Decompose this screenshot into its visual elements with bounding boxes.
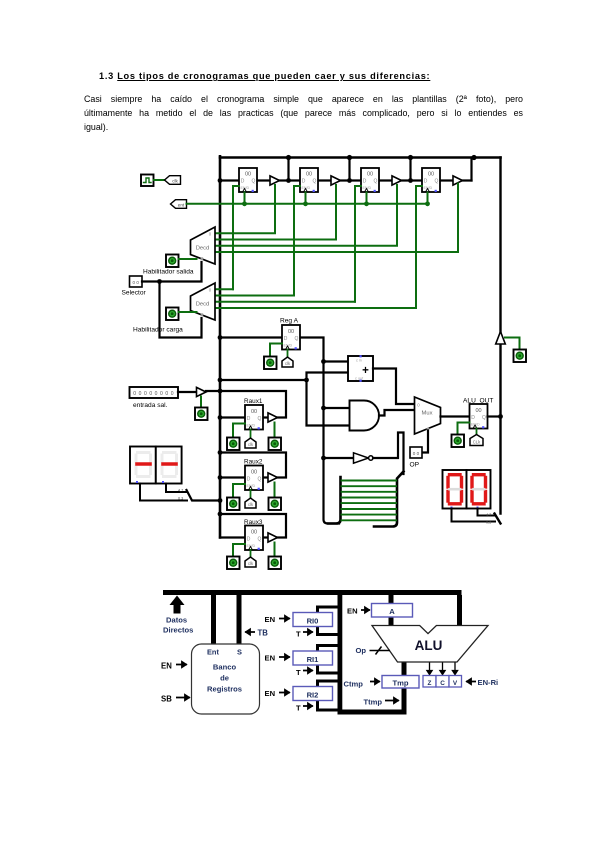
wire FF3 EN to decoder2 out3 <box>355 186 361 302</box>
svg-text:S: S <box>237 648 242 657</box>
wire Ent drop bar <box>211 595 216 644</box>
buffer Raux3 <box>268 533 278 542</box>
wire adder in1 <box>324 360 349 362</box>
wire Raux1 loop <box>206 391 286 418</box>
node RegA D rail junction <box>218 335 223 340</box>
arrow T RI1 <box>303 668 313 673</box>
wire Raux3 loop <box>220 514 286 538</box>
flip-flop FF4 <box>422 168 440 192</box>
ALU body <box>372 626 488 663</box>
seven-segment display right digit1 (0) <box>443 470 467 509</box>
wire selector branch to decoder2 select <box>160 282 202 338</box>
wire adder in2 <box>307 373 349 381</box>
wire bus bottom bar <box>338 710 407 715</box>
node ALU_OUT Q rail junction <box>498 414 503 419</box>
wire NOT out <box>373 433 404 475</box>
svg-text:T: T <box>296 630 301 639</box>
svg-text:Reg A: Reg A <box>280 318 299 325</box>
svg-text:4,7: 4,7 <box>178 489 183 493</box>
arrow EN RI0 <box>279 616 290 621</box>
svg-text:entrada sal.: entrada sal. <box>133 402 168 409</box>
pin output triangle on right rail <box>496 332 506 345</box>
wire NOT in <box>324 457 354 459</box>
svg-text:Z: Z <box>428 680 432 687</box>
wire display1 digit2 to splitter <box>166 484 187 493</box>
wire bus drop from buffer4 out <box>470 158 472 181</box>
node ent-line junctions <box>242 201 430 206</box>
svg-text:Ent: Ent <box>207 648 219 657</box>
register ALU_OUT <box>470 404 488 429</box>
wire S drop bar <box>237 595 242 644</box>
button ALU_OUT enable <box>452 435 465 448</box>
svg-text:Selector: Selector <box>122 290 147 297</box>
node adder-in2 branch junction <box>304 378 309 383</box>
wire Raux3 buffer-enable green <box>274 543 276 557</box>
arrow flag V <box>452 663 457 675</box>
wire main bus column <box>338 595 343 715</box>
button Raux1 output-enable <box>269 438 282 451</box>
node rail y380 junction <box>218 378 223 383</box>
svg-text:Registros: Registros <box>207 685 242 694</box>
wire FF4 EN to decoder2 out4 <box>416 186 422 308</box>
svg-text:clk: clk <box>172 178 178 183</box>
button Raux1 enable <box>227 438 240 451</box>
wire display2 digit2 to splitter <box>478 509 495 516</box>
tag clk Raux3 <box>245 557 256 567</box>
wire decoder1 out2 to buffer2 enable <box>215 185 336 240</box>
wire Raux1 EN green <box>233 424 245 438</box>
register A <box>372 604 413 618</box>
MUX U6 <box>415 397 441 434</box>
wire right bar <box>457 595 462 626</box>
svg-text:Banco: Banco <box>213 663 237 672</box>
arrow T RI2 <box>303 703 313 708</box>
seven-segment display left (dash) digit1 <box>130 447 156 484</box>
svg-text:Tmp: Tmp <box>392 679 408 688</box>
decoder U1 Decd (habilitador salida) <box>191 227 216 264</box>
svg-text:0 0: 0 0 <box>413 451 420 456</box>
svg-text:Raux1: Raux1 <box>244 398 263 405</box>
bracket RI1 <box>318 646 340 674</box>
block Banco de Registros <box>192 644 260 714</box>
wire Raux2 EN green <box>233 484 245 498</box>
register Raux2 <box>245 466 263 491</box>
wire decoder2 out3 stub <box>215 301 355 303</box>
LED output <box>514 350 527 363</box>
svg-text:OP: OP <box>410 462 420 469</box>
svg-text:RI0: RI0 <box>307 617 319 626</box>
node bus junction dots <box>218 155 477 183</box>
wire Raux2 clock stub <box>250 490 252 498</box>
wire bus drop to FF2 D <box>287 158 289 181</box>
svg-text:Decd: Decd <box>196 302 210 308</box>
wire FF D-Q chain <box>220 179 472 181</box>
wire bus drop to FF3 D <box>348 158 350 181</box>
svg-text:Directos: Directos <box>163 626 193 635</box>
register Raux1 <box>245 405 263 430</box>
wire entrada to buffer <box>178 391 197 393</box>
svg-text:0,3: 0,3 <box>486 521 491 525</box>
seven-segment display right digit2 (0) <box>467 470 491 509</box>
buffer B1 <box>270 176 280 185</box>
svg-text:Habilitador salida: Habilitador salida <box>143 269 194 276</box>
adder U3 <box>348 355 373 382</box>
register RI0 <box>293 613 333 627</box>
button entrada enable <box>195 408 208 421</box>
wire Raux2 buffer-enable green <box>274 483 276 498</box>
svg-text:TB: TB <box>258 629 269 638</box>
wire ent line to FF clocks <box>187 203 428 205</box>
wire Op with slash <box>370 647 391 655</box>
flip-flop FF2 <box>300 168 318 192</box>
arrow EN-Ri <box>466 679 476 684</box>
wire decoder2 out2 stub <box>215 295 294 297</box>
wire decoder1 out3 to buffer3 enable <box>215 185 397 246</box>
wire RegA D input <box>220 336 282 338</box>
wire top bus <box>220 156 501 159</box>
button Raux2 output-enable <box>269 498 282 511</box>
wire display1 digit1 to splitter <box>140 484 187 501</box>
node Raux2 rail junctions <box>218 450 223 480</box>
svg-text:+: + <box>362 365 369 377</box>
wire Tmp column <box>402 662 407 710</box>
register Tmp <box>382 676 419 689</box>
register RI1 <box>293 651 333 665</box>
splitter display2 <box>495 514 501 524</box>
svg-text:ALU: ALU <box>415 638 443 653</box>
flag C box <box>436 676 449 688</box>
wire entrada buffer enable <box>200 397 202 408</box>
arrow EN RI2 <box>279 690 290 695</box>
svg-text:Decd: Decd <box>196 246 210 252</box>
wire display2 digit1 to splitter <box>452 509 496 522</box>
wire RegA EN green <box>270 344 282 358</box>
wire Raux1 buffer-enable green <box>274 423 276 438</box>
svg-text:EN: EN <box>161 662 172 671</box>
arrow flag C <box>440 663 445 675</box>
wire button2 to decoder2 enable <box>179 311 197 313</box>
arrow T RI0 <box>303 629 313 634</box>
svg-text:SB: SB <box>161 695 172 704</box>
bracket RI2 <box>318 681 340 710</box>
svg-text:Mux: Mux <box>422 411 433 417</box>
flip-flop FF1 <box>239 168 257 192</box>
decoder U2 Decd (habilitador carga) <box>191 283 216 320</box>
tunnel ent <box>171 200 187 209</box>
node adder-in1 junction <box>321 359 326 364</box>
tag clk Raux1 <box>245 438 256 448</box>
tunnel clk <box>165 176 181 185</box>
wire ALU_OUT Q to right rail <box>488 415 501 417</box>
wire right rail <box>499 158 501 514</box>
wire button1 to decoder1 enable <box>179 258 197 260</box>
tag CLK ALU_OUT <box>470 435 483 446</box>
seven-segment display left (dash) digit2 <box>156 447 182 484</box>
svg-text:0 0: 0 0 <box>133 280 140 285</box>
wire FF2 clock drop <box>305 193 307 204</box>
bracket RI0 <box>318 607 340 635</box>
svg-text:EN: EN <box>347 607 358 616</box>
wire output pin to LED green <box>505 338 520 350</box>
buffer B3 <box>392 176 402 185</box>
button Raux3 output-enable <box>269 557 282 570</box>
wire FF3 clock drop <box>366 193 368 204</box>
wire ALU_OUT clock stub <box>476 429 478 435</box>
wire FF2 EN to decoder2 out2 <box>294 186 300 296</box>
wire RegA clock stub <box>287 350 289 358</box>
wire MUX out to ALU_OUT D <box>441 415 470 417</box>
splitter display1 <box>187 490 221 501</box>
splitter main right spine <box>374 472 404 527</box>
svg-text:Ttmp: Ttmp <box>364 698 383 707</box>
wire decoder1 out4 to buffer4 enable <box>215 184 458 253</box>
arrow SB banco <box>176 695 190 700</box>
arrow EN banco <box>176 662 187 667</box>
buffer Raux1 <box>268 413 278 422</box>
svg-text:T: T <box>296 668 301 677</box>
flip-flop FF3 <box>361 168 379 192</box>
arrow EN RI1 <box>279 654 290 659</box>
wire OP to MUX select <box>422 431 428 453</box>
svg-text:c in: c in <box>356 359 362 363</box>
button habilitador salida <box>166 255 179 268</box>
flag Z box <box>423 676 436 688</box>
button Raux2 enable <box>227 498 240 511</box>
clock CLK1 <box>141 175 154 187</box>
wire bus drop to FF4 D <box>409 158 411 181</box>
buffer B4 <box>453 176 463 185</box>
button habilitador carga <box>166 308 179 321</box>
svg-text:T: T <box>296 704 301 713</box>
LED RegA enable <box>264 357 277 370</box>
wire Raux3 clock stub <box>250 550 252 557</box>
node display wire rail junction <box>218 498 223 503</box>
wire selector to decoder selects <box>142 262 202 282</box>
splitter main left spine <box>328 477 341 524</box>
arrow Ctmp <box>370 679 380 684</box>
svg-text:RI2: RI2 <box>307 691 319 700</box>
arrow Ttmp <box>385 698 399 703</box>
node Raux1 rail junctions <box>218 389 223 420</box>
node selector junction <box>157 279 162 284</box>
wire AND in2 <box>307 380 350 426</box>
node NOT-in junction <box>321 456 326 461</box>
wire AND in1 <box>324 407 350 409</box>
NOT gate U5 <box>354 453 373 463</box>
wire decoder2 out1 stub <box>215 288 233 290</box>
wire FF4 clock drop <box>427 193 429 204</box>
arrow EN A <box>361 607 370 612</box>
svg-text:0,3: 0,3 <box>178 497 183 501</box>
register Raux3 <box>245 526 263 551</box>
AND gate U4 <box>350 401 380 431</box>
svg-text:RI1: RI1 <box>307 655 320 664</box>
svg-text:Habilitador carga: Habilitador carga <box>133 327 183 334</box>
wire Raux3 EN green <box>233 544 245 557</box>
flag V box <box>449 676 462 688</box>
arrow flag Z <box>427 663 432 675</box>
svg-text:Datos: Datos <box>166 616 187 625</box>
wire adder out to MUX in1 <box>373 369 415 405</box>
svg-text:4,7: 4,7 <box>486 513 491 517</box>
wire FF1 EN to decoder2 out1 <box>233 186 239 289</box>
wire Raux2 loop <box>220 453 286 478</box>
wire rail to adder-in2 node <box>220 379 307 381</box>
tag clk Raux2 <box>245 498 256 508</box>
pin OP 2-bit <box>410 447 422 458</box>
pin entrada 8-bit <box>130 387 179 398</box>
svg-text:Op: Op <box>356 646 367 655</box>
register RegA <box>282 325 300 350</box>
svg-text:V: V <box>453 680 458 687</box>
wire FF1 clock drop <box>244 193 246 204</box>
wire ALU_OUT EN green <box>458 423 470 435</box>
wire A drop bar <box>389 595 394 626</box>
arrow datos directos <box>170 596 185 614</box>
svg-text:A: A <box>389 607 395 616</box>
wire RegA Q vertical trunk <box>300 338 340 524</box>
arrow TB <box>245 629 255 634</box>
node AND-in1 junction <box>321 406 326 411</box>
register RI2 <box>293 687 333 701</box>
wire bus top bar <box>163 590 462 595</box>
wire left rail <box>219 156 222 537</box>
svg-text:EN: EN <box>265 689 276 698</box>
svg-text:EN: EN <box>265 615 276 624</box>
svg-text:EN-Ri: EN-Ri <box>478 678 499 687</box>
wire Raux1 clock stub <box>250 430 252 438</box>
pin Selector 2-bit <box>130 276 143 287</box>
svg-text:CLk: CLk <box>473 440 481 445</box>
wire AND out to MUX in2 <box>379 410 415 416</box>
wire decoder2 out4 stub <box>215 307 416 309</box>
buffer entrada <box>197 387 207 396</box>
node Raux3 rail junction <box>218 512 223 517</box>
svg-text:C: C <box>440 680 445 687</box>
buffer B2 <box>331 176 341 185</box>
svg-text:Ctmp: Ctmp <box>344 680 364 689</box>
splitter green fan lines <box>342 481 397 521</box>
tag clk RegA <box>282 357 293 367</box>
svg-text:de: de <box>220 674 229 683</box>
svg-text:ent: ent <box>178 202 185 207</box>
svg-text:EN: EN <box>265 654 276 663</box>
buffer Raux2 <box>268 473 278 482</box>
wire clock to clk tunnel <box>154 179 166 181</box>
button Raux3 enable <box>227 557 240 570</box>
svg-text:0 0 0 0 0 0 0 0: 0 0 0 0 0 0 0 0 <box>133 391 174 397</box>
wire decoder1 out1 to buffer1 enable <box>215 185 275 233</box>
svg-text:Raux2: Raux2 <box>244 458 263 465</box>
